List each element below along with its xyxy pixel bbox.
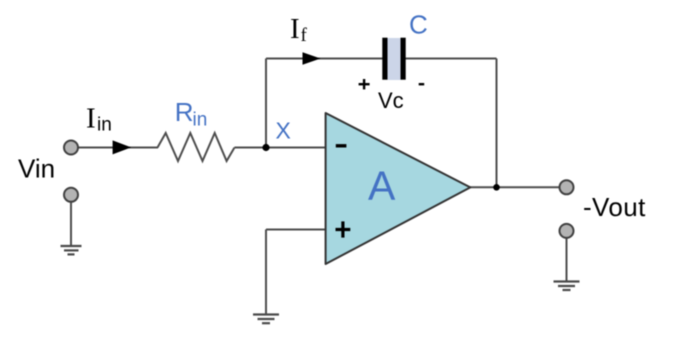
svg-text:in: in bbox=[193, 109, 208, 130]
svg-text:Vc: Vc bbox=[378, 88, 404, 113]
svg-text:R: R bbox=[175, 97, 194, 127]
svg-text:Vin: Vin bbox=[18, 154, 55, 184]
svg-text:in: in bbox=[97, 115, 112, 136]
svg-text:X: X bbox=[276, 117, 291, 143]
svg-text:-Vout: -Vout bbox=[583, 192, 646, 222]
svg-text:f: f bbox=[301, 25, 308, 46]
svg-text:C: C bbox=[409, 9, 428, 39]
svg-text:I: I bbox=[86, 102, 96, 134]
svg-text:A: A bbox=[368, 163, 396, 209]
svg-text:I: I bbox=[290, 13, 300, 45]
